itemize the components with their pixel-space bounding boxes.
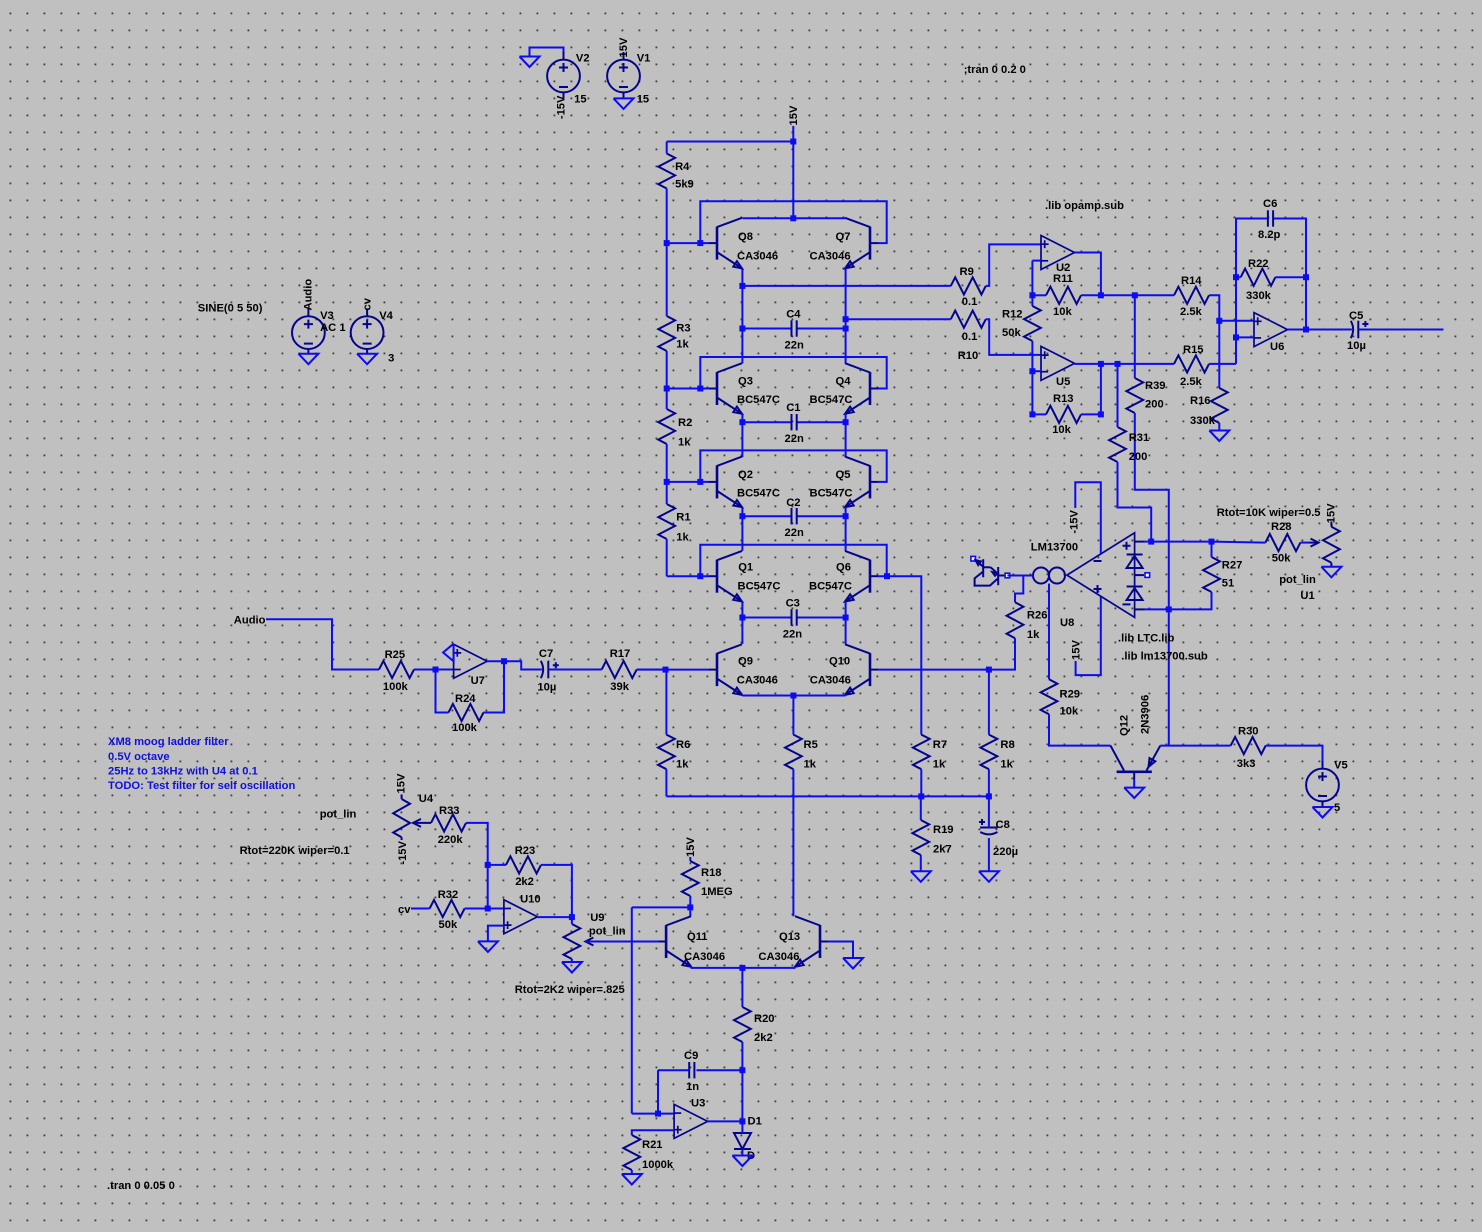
resistor R7 bbox=[913, 735, 947, 771]
ground (R16) bbox=[1209, 431, 1229, 442]
svg-text:cv: cv bbox=[361, 297, 373, 310]
net 15V (ladder top) bbox=[788, 105, 800, 125]
wire bbox=[1135, 413, 1169, 609]
svg-text:50k: 50k bbox=[439, 919, 458, 931]
potentiometer U9 bbox=[564, 912, 626, 959]
svg-text:R7: R7 bbox=[933, 739, 947, 751]
svg-text:BC547C: BC547C bbox=[737, 394, 780, 406]
svg-text:CA3046: CA3046 bbox=[684, 951, 725, 963]
svg-text:3k3: 3k3 bbox=[1237, 758, 1256, 770]
wire bbox=[845, 414, 847, 422]
wire bbox=[920, 769, 922, 796]
capacitor C9 bbox=[684, 1050, 699, 1093]
svg-text:R15: R15 bbox=[1183, 344, 1204, 356]
wire bbox=[1144, 608, 1169, 610]
wire bbox=[797, 421, 846, 423]
svg-text:2.5k: 2.5k bbox=[1180, 306, 1203, 318]
wire bbox=[792, 769, 794, 916]
junction bbox=[485, 906, 491, 912]
junction bbox=[687, 904, 693, 910]
svg-text:Audio: Audio bbox=[302, 279, 314, 311]
wire bbox=[1300, 542, 1309, 544]
svg-text:R1: R1 bbox=[676, 512, 690, 524]
wire bbox=[1101, 294, 1135, 296]
svg-text:V2: V2 bbox=[576, 52, 590, 64]
svg-text:-15V: -15V bbox=[556, 95, 568, 119]
svg-text:Q12: Q12 bbox=[1119, 715, 1131, 736]
svg-text:1k: 1k bbox=[933, 759, 946, 771]
svg-text:R20: R20 bbox=[754, 1013, 775, 1025]
wire bbox=[845, 516, 847, 551]
wire bbox=[488, 908, 504, 910]
wire bbox=[741, 414, 743, 422]
svg-text:R32: R32 bbox=[438, 889, 459, 901]
wire bbox=[637, 669, 709, 671]
resistor R11 bbox=[1046, 273, 1081, 318]
wire bbox=[700, 201, 886, 243]
svg-text:Rtot=10K wiper=0.5: Rtot=10K wiper=0.5 bbox=[1217, 507, 1321, 519]
ground (V1 -) bbox=[614, 98, 634, 109]
junction bbox=[884, 573, 890, 579]
svg-text:R10: R10 bbox=[958, 350, 979, 362]
wire bbox=[741, 602, 743, 618]
svg-text:1k: 1k bbox=[804, 759, 817, 771]
capacitor C6 bbox=[1258, 198, 1281, 241]
junction bbox=[697, 479, 703, 485]
svg-text:Rtot=2K2 wiper=.825: Rtot=2K2 wiper=.825 bbox=[515, 984, 625, 996]
svg-text:220k: 220k bbox=[438, 834, 464, 846]
svg-text:TODO: Test filter for self osc: TODO: Test filter for self oscillation bbox=[108, 780, 295, 792]
svg-text:2k2: 2k2 bbox=[754, 1032, 773, 1044]
junction bbox=[1166, 606, 1172, 612]
svg-text:CA3046: CA3046 bbox=[810, 250, 851, 262]
junction bbox=[739, 1067, 745, 1073]
wire bbox=[792, 126, 794, 218]
svg-text:R23: R23 bbox=[515, 845, 536, 857]
wire bbox=[1048, 584, 1050, 680]
svg-text:220µ: 220µ bbox=[993, 846, 1018, 858]
svg-text:22n: 22n bbox=[785, 527, 804, 539]
svg-text:15V: 15V bbox=[788, 105, 800, 125]
wire bbox=[792, 696, 794, 735]
wire bbox=[666, 389, 668, 410]
wire bbox=[484, 661, 505, 712]
svg-text:CA3046: CA3046 bbox=[737, 674, 778, 686]
junction bbox=[697, 240, 703, 246]
wire bbox=[989, 638, 1015, 669]
wire bbox=[1076, 597, 1101, 675]
wire bbox=[697, 1069, 743, 1071]
svg-text:R24: R24 bbox=[455, 693, 476, 705]
svg-text:U8: U8 bbox=[1060, 617, 1074, 629]
svg-text:5k9: 5k9 bbox=[675, 178, 694, 190]
svg-text:15V: 15V bbox=[618, 37, 630, 57]
potentiometer U1 bbox=[1217, 507, 1340, 602]
svg-text:pot_lin: pot_lin bbox=[589, 926, 626, 938]
capacitor C1 bbox=[785, 402, 804, 445]
svg-text:R22: R22 bbox=[1248, 258, 1269, 270]
wire bbox=[571, 917, 573, 924]
wire bbox=[1118, 462, 1152, 542]
wire bbox=[266, 619, 379, 669]
svg-text:R4: R4 bbox=[675, 161, 690, 173]
wire bbox=[1032, 370, 1041, 372]
svg-text:1k: 1k bbox=[676, 531, 689, 543]
wire bbox=[666, 351, 668, 389]
svg-text:-15V: -15V bbox=[1325, 503, 1337, 527]
svg-text:R27: R27 bbox=[1222, 560, 1243, 572]
svg-text:5: 5 bbox=[1334, 802, 1340, 814]
resistor R1 bbox=[658, 504, 690, 543]
wire bbox=[986, 319, 1041, 355]
net -15V (U4 bottom) bbox=[397, 840, 409, 864]
wire bbox=[666, 142, 668, 154]
svg-text:25Hz to 13kHz with U4 at 0.1: 25Hz to 13kHz with U4 at 0.1 bbox=[108, 766, 258, 778]
svg-text:1k: 1k bbox=[676, 339, 689, 351]
wire bbox=[846, 318, 951, 320]
svg-text:15: 15 bbox=[637, 94, 649, 106]
wire bbox=[667, 481, 709, 483]
resistor R5 bbox=[785, 735, 818, 771]
svg-text:U6: U6 bbox=[1270, 341, 1284, 353]
wire bbox=[741, 1042, 743, 1070]
resistor R23 bbox=[506, 845, 541, 888]
resistor R10 bbox=[951, 311, 986, 362]
junction bbox=[1209, 539, 1215, 545]
wire bbox=[1133, 780, 1135, 788]
svg-text:BC547C: BC547C bbox=[809, 581, 852, 593]
svg-text:R18: R18 bbox=[701, 867, 722, 879]
svg-text:BC547C: BC547C bbox=[810, 394, 853, 406]
transistor Q1 bbox=[709, 551, 780, 602]
transistor Q11 bbox=[658, 916, 725, 967]
junction bbox=[1233, 274, 1239, 280]
wire bbox=[1007, 575, 1033, 577]
wire bbox=[1358, 329, 1443, 331]
wire bbox=[1275, 276, 1306, 278]
junction bbox=[843, 615, 849, 621]
transistor Q8 bbox=[709, 218, 778, 269]
svg-text:Q2: Q2 bbox=[738, 469, 753, 481]
ground (V2 +) bbox=[520, 57, 540, 68]
wire bbox=[1219, 320, 1254, 322]
svg-text:R13: R13 bbox=[1053, 393, 1074, 405]
junction bbox=[739, 1118, 745, 1124]
wire bbox=[700, 450, 886, 482]
ground (V4 -) bbox=[357, 354, 377, 365]
wire bbox=[541, 865, 572, 917]
svg-text:Q4: Q4 bbox=[836, 376, 852, 388]
capacitor C5 bbox=[1347, 310, 1368, 352]
net pot_lin (U4) bbox=[320, 809, 357, 821]
junction bbox=[1148, 539, 1154, 545]
svg-text:0.1: 0.1 bbox=[962, 331, 978, 343]
wire bbox=[1049, 714, 1111, 745]
svg-text:10k: 10k bbox=[1053, 306, 1072, 318]
svg-text:U5: U5 bbox=[1056, 376, 1070, 388]
svg-text:C2: C2 bbox=[786, 497, 800, 509]
svg-text:SINE(0 5 50): SINE(0 5 50) bbox=[198, 303, 263, 315]
resistor R39 bbox=[1126, 378, 1165, 413]
transistor Q6 bbox=[809, 551, 878, 602]
junction bbox=[739, 326, 745, 332]
svg-text:10k: 10k bbox=[1060, 706, 1079, 718]
svg-text:R31: R31 bbox=[1129, 432, 1150, 444]
junction bbox=[1098, 411, 1104, 417]
svg-text:10k: 10k bbox=[1052, 424, 1071, 436]
wire bbox=[465, 908, 488, 910]
wire bbox=[741, 507, 743, 516]
wire bbox=[665, 769, 667, 796]
svg-text:22n: 22n bbox=[785, 340, 804, 352]
resistor R4 bbox=[658, 154, 693, 191]
wire bbox=[741, 286, 743, 329]
wire bbox=[1305, 277, 1307, 329]
junction bbox=[843, 513, 849, 519]
svg-text:C1: C1 bbox=[786, 402, 800, 414]
svg-text:;tran 0 0.2 0: ;tran 0 0.2 0 bbox=[964, 64, 1026, 76]
wire bbox=[708, 1120, 743, 1122]
resistor R21 bbox=[623, 1135, 673, 1171]
voltage source V3 (audio sine) bbox=[292, 309, 346, 355]
junction bbox=[664, 386, 670, 392]
svg-text:R30: R30 bbox=[1238, 726, 1259, 738]
svg-text:U4: U4 bbox=[419, 793, 434, 805]
svg-text:51: 51 bbox=[1222, 578, 1234, 590]
svg-text:C7: C7 bbox=[539, 648, 553, 660]
svg-text:1k: 1k bbox=[1000, 759, 1013, 771]
svg-text:R29: R29 bbox=[1060, 689, 1081, 701]
svg-text:.lib LTC.lib: .lib LTC.lib bbox=[1118, 633, 1175, 645]
wire bbox=[411, 908, 430, 910]
wire bbox=[1236, 219, 1268, 278]
wire bbox=[666, 539, 668, 576]
svg-text:-15V: -15V bbox=[1069, 509, 1081, 533]
svg-text:15V: 15V bbox=[1071, 640, 1083, 660]
ground (V5) bbox=[1313, 807, 1333, 818]
svg-text:Q10: Q10 bbox=[829, 656, 850, 668]
wire bbox=[1134, 295, 1136, 378]
resistor R14 bbox=[1174, 275, 1209, 318]
svg-text:U3: U3 bbox=[691, 1098, 705, 1110]
wire bbox=[537, 916, 572, 918]
wire bbox=[632, 1130, 674, 1135]
transistor Q13 bbox=[758, 916, 828, 967]
wire bbox=[504, 661, 542, 669]
capacitor C8 bbox=[979, 819, 1018, 858]
resistor R9 bbox=[951, 266, 986, 308]
wire bbox=[548, 669, 601, 671]
wire bbox=[988, 838, 990, 871]
svg-text:15V: 15V bbox=[396, 773, 408, 793]
svg-text:3: 3 bbox=[388, 352, 394, 364]
svg-text:50k: 50k bbox=[1002, 327, 1021, 339]
transistor Q12 bbox=[1111, 695, 1161, 780]
junction bbox=[843, 419, 849, 425]
svg-text:Q5: Q5 bbox=[836, 469, 851, 481]
junction bbox=[1115, 361, 1121, 367]
wire bbox=[742, 421, 791, 423]
svg-text:2N3906: 2N3906 bbox=[1139, 695, 1151, 734]
ground (D1) bbox=[732, 1156, 752, 1167]
wire bbox=[845, 268, 847, 319]
text Rtot=220K wiper=0.1 bbox=[240, 845, 350, 857]
voltage source V2 (-15V supply) bbox=[547, 52, 589, 106]
junction bbox=[739, 965, 745, 971]
junction bbox=[739, 615, 745, 621]
wire bbox=[1306, 329, 1352, 331]
ground (C8) bbox=[979, 871, 999, 882]
capacitor C3 bbox=[783, 598, 802, 641]
wire bbox=[666, 243, 668, 316]
svg-text:C9: C9 bbox=[684, 1050, 698, 1062]
resistor R6 bbox=[658, 735, 690, 771]
junction bbox=[1098, 361, 1104, 367]
net cv (R32 input) bbox=[398, 904, 411, 916]
wire bbox=[1236, 336, 1254, 338]
wire bbox=[488, 926, 504, 942]
svg-text:C8: C8 bbox=[996, 819, 1010, 831]
wire bbox=[571, 959, 573, 962]
svg-text:50k: 50k bbox=[1272, 553, 1291, 565]
svg-text:1MEG: 1MEG bbox=[701, 886, 733, 898]
svg-text:V1: V1 bbox=[637, 52, 651, 64]
junction bbox=[843, 326, 849, 332]
ground (V3 -) bbox=[298, 354, 318, 365]
wire bbox=[845, 602, 847, 618]
wire bbox=[1236, 276, 1241, 278]
wire bbox=[436, 669, 454, 671]
wire bbox=[487, 660, 504, 662]
ground (Q12 base) bbox=[1124, 788, 1144, 799]
svg-text:U1: U1 bbox=[1300, 590, 1314, 602]
wire bbox=[741, 618, 743, 644]
op-amp U5 bbox=[1041, 346, 1075, 388]
svg-text:R14: R14 bbox=[1181, 275, 1202, 287]
ground (R21) bbox=[622, 1174, 642, 1185]
junction bbox=[790, 139, 796, 145]
wire bbox=[920, 796, 922, 820]
wire bbox=[1032, 294, 1046, 296]
junction bbox=[790, 215, 796, 221]
resistor R20 bbox=[734, 1007, 775, 1044]
svg-text:R33: R33 bbox=[439, 805, 460, 817]
svg-text:R21: R21 bbox=[642, 1139, 663, 1151]
svg-text:R28: R28 bbox=[1271, 521, 1292, 533]
svg-text:R19: R19 bbox=[933, 824, 954, 836]
svg-text:CA3046: CA3046 bbox=[737, 250, 778, 262]
wire bbox=[845, 507, 847, 516]
wire bbox=[1209, 363, 1236, 365]
wire bbox=[1032, 260, 1041, 262]
text ;tran 0 0.2 0 bbox=[964, 64, 1026, 76]
wire bbox=[988, 670, 990, 735]
junction bbox=[1029, 292, 1035, 298]
svg-text:XM8 moog ladder filter: XM8 moog ladder filter bbox=[108, 736, 229, 748]
wire bbox=[1101, 363, 1118, 365]
svg-text:1k: 1k bbox=[678, 437, 691, 449]
svg-text:.tran 0 0.05 0: .tran 0 0.05 0 bbox=[107, 1180, 175, 1192]
wire bbox=[1100, 364, 1102, 415]
net -15V (U1) bbox=[1325, 503, 1337, 527]
svg-text:C3: C3 bbox=[786, 598, 800, 610]
wire bbox=[1075, 253, 1101, 296]
resistor R19 bbox=[912, 820, 953, 856]
wire bbox=[666, 795, 989, 797]
wire bbox=[986, 244, 1041, 286]
svg-text:V4: V4 bbox=[379, 310, 393, 322]
ground (U10 +) bbox=[478, 941, 498, 952]
wire bbox=[666, 444, 668, 482]
wire bbox=[741, 968, 743, 1007]
svg-text:V3: V3 bbox=[320, 310, 334, 322]
wire bbox=[1209, 295, 1219, 321]
wire bbox=[488, 864, 506, 866]
wire bbox=[920, 855, 922, 871]
svg-text:10µ: 10µ bbox=[1347, 340, 1366, 352]
svg-text:CA3046: CA3046 bbox=[758, 951, 799, 963]
wire bbox=[667, 141, 794, 143]
junction bbox=[790, 693, 796, 699]
transistor Q4 bbox=[810, 363, 879, 414]
junction bbox=[664, 479, 670, 485]
resistor R32 bbox=[430, 889, 465, 931]
net Audio (V3) bbox=[302, 279, 314, 311]
resistor R12 bbox=[1002, 306, 1041, 341]
svg-text:R2: R2 bbox=[678, 417, 692, 429]
junction bbox=[501, 658, 507, 664]
junction bbox=[1029, 411, 1035, 417]
svg-text:200: 200 bbox=[1129, 451, 1148, 463]
wire bbox=[741, 1121, 743, 1133]
wire bbox=[741, 268, 743, 286]
svg-text:pot_lin: pot_lin bbox=[320, 809, 357, 821]
junction bbox=[697, 386, 703, 392]
ground (rotated, on + input of U7) bbox=[443, 644, 454, 662]
wire bbox=[1266, 746, 1323, 761]
capacitor C4 bbox=[785, 309, 804, 352]
junction bbox=[986, 667, 992, 673]
junction bbox=[1029, 368, 1035, 374]
wire bbox=[637, 669, 666, 671]
net -15V (U8 V+) bbox=[1069, 509, 1081, 533]
wire bbox=[689, 907, 691, 916]
wire bbox=[665, 670, 667, 735]
transistor Q5 bbox=[810, 457, 879, 508]
resistor R22 bbox=[1241, 258, 1276, 302]
wire bbox=[530, 48, 564, 57]
svg-text:8.2p: 8.2p bbox=[1258, 229, 1281, 241]
svg-text:.lib lm13700.sub: .lib lm13700.sub bbox=[1121, 651, 1208, 663]
svg-text:U7: U7 bbox=[471, 675, 485, 687]
junction bbox=[433, 667, 439, 673]
svg-text:Q9: Q9 bbox=[738, 656, 753, 668]
svg-text:100k: 100k bbox=[452, 722, 478, 734]
svg-text:Q3: Q3 bbox=[738, 376, 753, 388]
svg-text:R39: R39 bbox=[1145, 380, 1166, 392]
wire bbox=[585, 941, 658, 943]
svg-text:22n: 22n bbox=[785, 433, 804, 445]
wire bbox=[667, 575, 709, 577]
wire bbox=[741, 1070, 743, 1121]
wire bbox=[1151, 541, 1211, 543]
svg-text:pot_lin: pot_lin bbox=[1279, 574, 1316, 586]
junction bbox=[739, 283, 745, 289]
svg-text:D1: D1 bbox=[748, 1116, 762, 1128]
resistor R31 bbox=[1109, 427, 1149, 463]
ground (U9) bbox=[562, 962, 582, 973]
wire bbox=[742, 515, 791, 517]
